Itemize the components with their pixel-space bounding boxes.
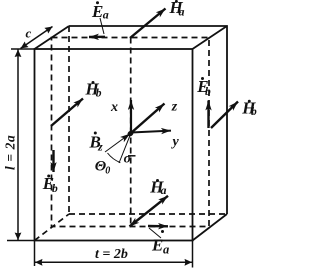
svg-text:x: x: [110, 100, 118, 115]
svg-text:σ: σ: [124, 152, 132, 167]
svg-text:t = 2b: t = 2b: [95, 247, 128, 262]
svg-text:y: y: [171, 135, 180, 150]
svg-text:b: b: [251, 106, 257, 118]
svg-text:E: E: [91, 2, 103, 21]
svg-text:a: a: [179, 5, 185, 19]
svg-text:a: a: [161, 183, 167, 197]
svg-text:c: c: [26, 26, 32, 41]
svg-text:a: a: [163, 243, 169, 257]
svg-text:z: z: [97, 140, 103, 154]
svg-text:a: a: [103, 7, 109, 21]
svg-text:l = 2a: l = 2a: [3, 135, 18, 170]
svg-text:b: b: [96, 88, 102, 100]
svg-text:z: z: [171, 100, 178, 115]
svg-text:E: E: [151, 236, 163, 255]
svg-text:b: b: [52, 183, 58, 195]
svg-text:0: 0: [105, 166, 110, 177]
svg-text:b: b: [205, 86, 211, 98]
